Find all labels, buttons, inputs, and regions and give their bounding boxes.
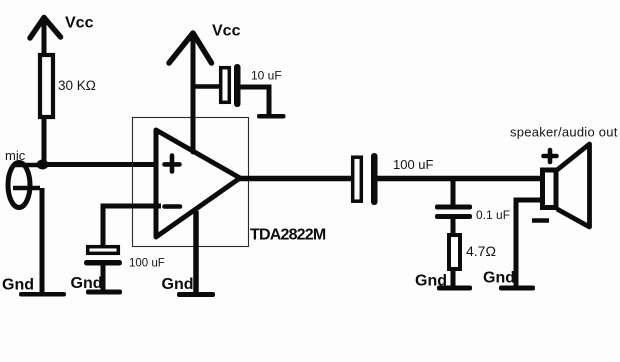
wire zobel junction to C4 xyxy=(451,179,456,208)
power symbol Vcc (bias supply) xyxy=(30,18,61,57)
IC outline box (TDA2822M) xyxy=(133,118,249,247)
svg-text:100 uF: 100 uF xyxy=(393,157,434,172)
wire speaker return to ground xyxy=(516,200,542,288)
svg-text:30 KΩ: 30 KΩ xyxy=(58,78,96,93)
pin marker - input xyxy=(165,204,181,209)
electret mic MIC1 xyxy=(8,163,40,208)
speaker - terminal marker xyxy=(532,218,549,223)
pin marker + input xyxy=(165,156,180,172)
resistor R1 30 KΩ xyxy=(40,55,53,117)
svg-text:Gnd: Gnd xyxy=(415,273,447,290)
svg-text:0.1 uF: 0.1 uF xyxy=(476,208,510,222)
wire Vcc to C1 xyxy=(193,84,222,89)
op-amp U1 TDA2822M xyxy=(156,130,240,237)
speaker LS1 xyxy=(543,144,590,227)
node A (mic / R1 / +input junction) xyxy=(37,160,49,170)
wire C3 to speaker xyxy=(377,176,543,182)
resistor R2 4.7Ω (zobel) xyxy=(449,235,460,269)
svg-text:100 uF: 100 uF xyxy=(129,258,165,270)
wire C1 to ground xyxy=(240,87,269,115)
capacitor C4 0.1uF (zobel) xyxy=(435,205,472,220)
wire op-amp - input to C2 xyxy=(103,206,161,247)
svg-text:Gnd: Gnd xyxy=(71,275,103,292)
wire C2 to ground xyxy=(101,264,106,292)
wire op-amp output to C3 xyxy=(238,176,353,182)
ground (zobel) xyxy=(437,286,472,291)
wire C4 to R2 xyxy=(451,219,456,235)
svg-text:speaker/audio out: speaker/audio out xyxy=(510,125,618,140)
ground (op-amp) xyxy=(177,292,215,297)
ground (speaker) xyxy=(499,286,535,291)
wire input node to op-amp + input xyxy=(43,162,161,167)
wire R2 to ground xyxy=(451,269,456,288)
capacitor C3 100uF (output coupling) xyxy=(353,153,378,205)
svg-text:Gnd: Gnd xyxy=(2,277,34,294)
svg-text:mic: mic xyxy=(5,148,26,163)
ground (mic) xyxy=(19,292,66,297)
svg-text:10 uF: 10 uF xyxy=(251,69,282,83)
svg-text:4.7Ω: 4.7Ω xyxy=(466,243,496,259)
svg-text:Gnd: Gnd xyxy=(162,276,194,293)
capacitor C2 100uF (feedback) xyxy=(84,247,122,266)
ground (C1) xyxy=(257,114,286,119)
speaker + terminal marker xyxy=(544,150,557,162)
svg-text:TDA2822M: TDA2822M xyxy=(250,227,326,244)
ground (C2) xyxy=(86,290,122,295)
power symbol Vcc (op-amp supply) xyxy=(169,33,212,152)
capacitor C1 10uF (supply decoupling) xyxy=(221,64,241,107)
svg-text:Vcc: Vcc xyxy=(65,15,94,32)
wire R1 to input node xyxy=(42,117,47,166)
wire op-amp to ground xyxy=(193,211,199,294)
svg-text:Vcc: Vcc xyxy=(212,23,241,40)
wire mic return to ground xyxy=(40,188,45,293)
svg-text:Gnd: Gnd xyxy=(483,270,515,287)
